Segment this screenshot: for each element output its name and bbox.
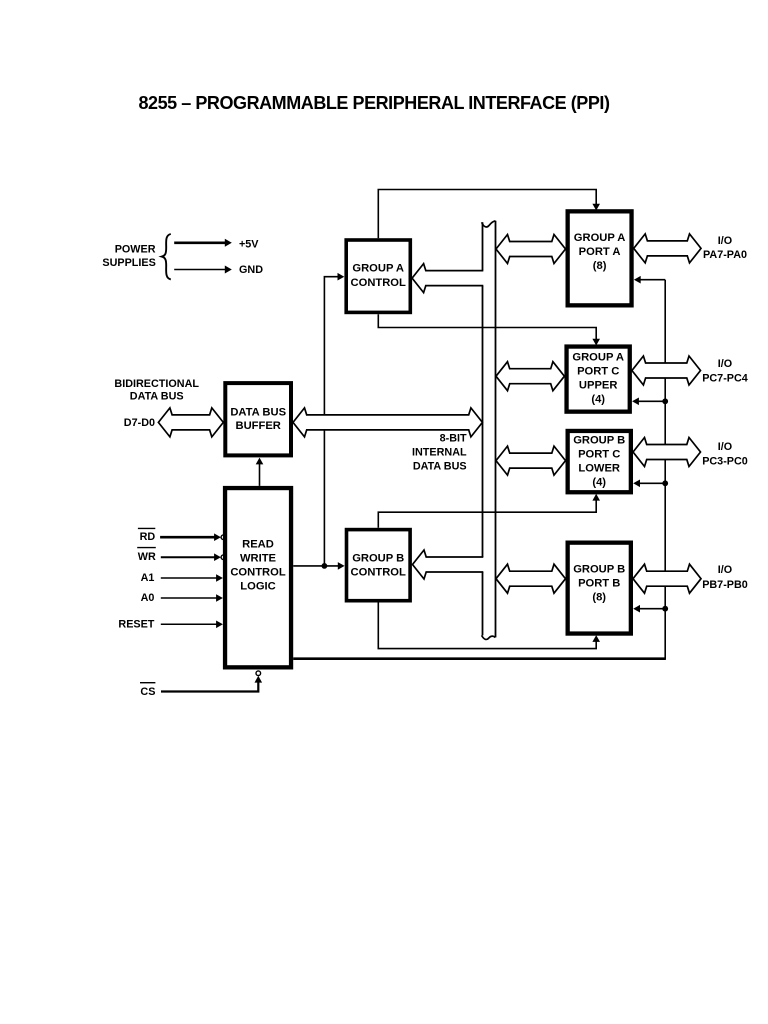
svg-text:CS: CS — [140, 686, 155, 698]
svg-text:CONTROL: CONTROL — [351, 566, 406, 578]
svg-text:DATA BUS: DATA BUS — [230, 406, 286, 418]
svg-text:D7-D0: D7-D0 — [124, 417, 155, 429]
svg-text:RESET: RESET — [118, 618, 154, 630]
svg-text:PORT C: PORT C — [577, 366, 619, 378]
svg-text:+5V: +5V — [239, 238, 259, 250]
svg-text:WRITE: WRITE — [240, 553, 277, 565]
svg-text:UPPER: UPPER — [579, 380, 618, 392]
svg-text:8-BIT: 8-BIT — [440, 433, 467, 445]
svg-text:GND: GND — [239, 264, 263, 276]
svg-text:PORT A: PORT A — [579, 246, 621, 258]
svg-text:READ: READ — [242, 538, 274, 550]
svg-text:PORT C: PORT C — [578, 449, 620, 461]
svg-text:GROUP B: GROUP B — [573, 435, 625, 447]
svg-text:DATA BUS: DATA BUS — [130, 391, 184, 403]
svg-text:GROUP A: GROUP A — [574, 232, 626, 244]
svg-text:BUFFER: BUFFER — [236, 420, 281, 432]
svg-text:WR: WR — [138, 551, 156, 563]
svg-text:RD: RD — [140, 531, 156, 543]
svg-text:POWER: POWER — [115, 244, 156, 256]
svg-text:PB7-PB0: PB7-PB0 — [702, 579, 748, 591]
svg-text:PORT B: PORT B — [578, 577, 620, 589]
svg-text:PC3-PC0: PC3-PC0 — [702, 455, 748, 467]
svg-text:(4): (4) — [592, 477, 606, 489]
svg-text:I/O: I/O — [718, 564, 732, 576]
svg-text:INTERNAL: INTERNAL — [412, 447, 467, 459]
svg-text:A0: A0 — [141, 592, 155, 604]
svg-text:DATA BUS: DATA BUS — [413, 461, 467, 473]
svg-text:(8): (8) — [593, 260, 607, 272]
svg-text:A1: A1 — [141, 572, 155, 584]
svg-text:GROUP A: GROUP A — [352, 263, 404, 275]
svg-text:CONTROL: CONTROL — [230, 567, 285, 579]
svg-text:BIDIRECTIONAL: BIDIRECTIONAL — [114, 378, 199, 390]
svg-text:GROUP A: GROUP A — [572, 352, 624, 364]
svg-text:I/O: I/O — [718, 358, 732, 370]
svg-text:(4): (4) — [591, 394, 605, 406]
svg-text:LOGIC: LOGIC — [240, 581, 275, 593]
svg-text:CONTROL: CONTROL — [351, 277, 406, 289]
svg-text:PA7-PA0: PA7-PA0 — [703, 249, 747, 261]
svg-text:SUPPLIES: SUPPLIES — [102, 257, 155, 269]
svg-text:GROUP B: GROUP B — [352, 552, 404, 564]
svg-text:(8): (8) — [592, 591, 606, 603]
svg-text:I/O: I/O — [718, 441, 732, 453]
svg-text:LOWER: LOWER — [578, 463, 620, 475]
svg-text:I/O: I/O — [718, 235, 732, 247]
svg-text:GROUP B: GROUP B — [573, 563, 625, 575]
svg-text:8255 – PROGRAMMABLE PERIPHERAL: 8255 – PROGRAMMABLE PERIPHERAL INTERFACE… — [138, 93, 610, 113]
svg-text:PC7-PC4: PC7-PC4 — [702, 372, 748, 384]
